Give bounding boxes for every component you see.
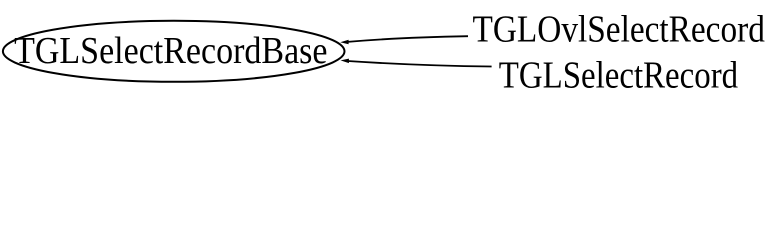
- svg-text:TGLSelectRecordBase: TGLSelectRecordBase: [14, 30, 327, 72]
- svg-text:TGLOvlSelectRecord: TGLOvlSelectRecord: [473, 9, 765, 51]
- edge from TGLOvlSelectRecord to base (arrow): [340, 36, 468, 44]
- node TGLSelectRecordBase (base class ellipse): [3, 21, 345, 82]
- edge from TGLSelectRecord to base (arrow): [341, 59, 492, 67]
- svg-text:TGLSelectRecord: TGLSelectRecord: [499, 54, 738, 96]
